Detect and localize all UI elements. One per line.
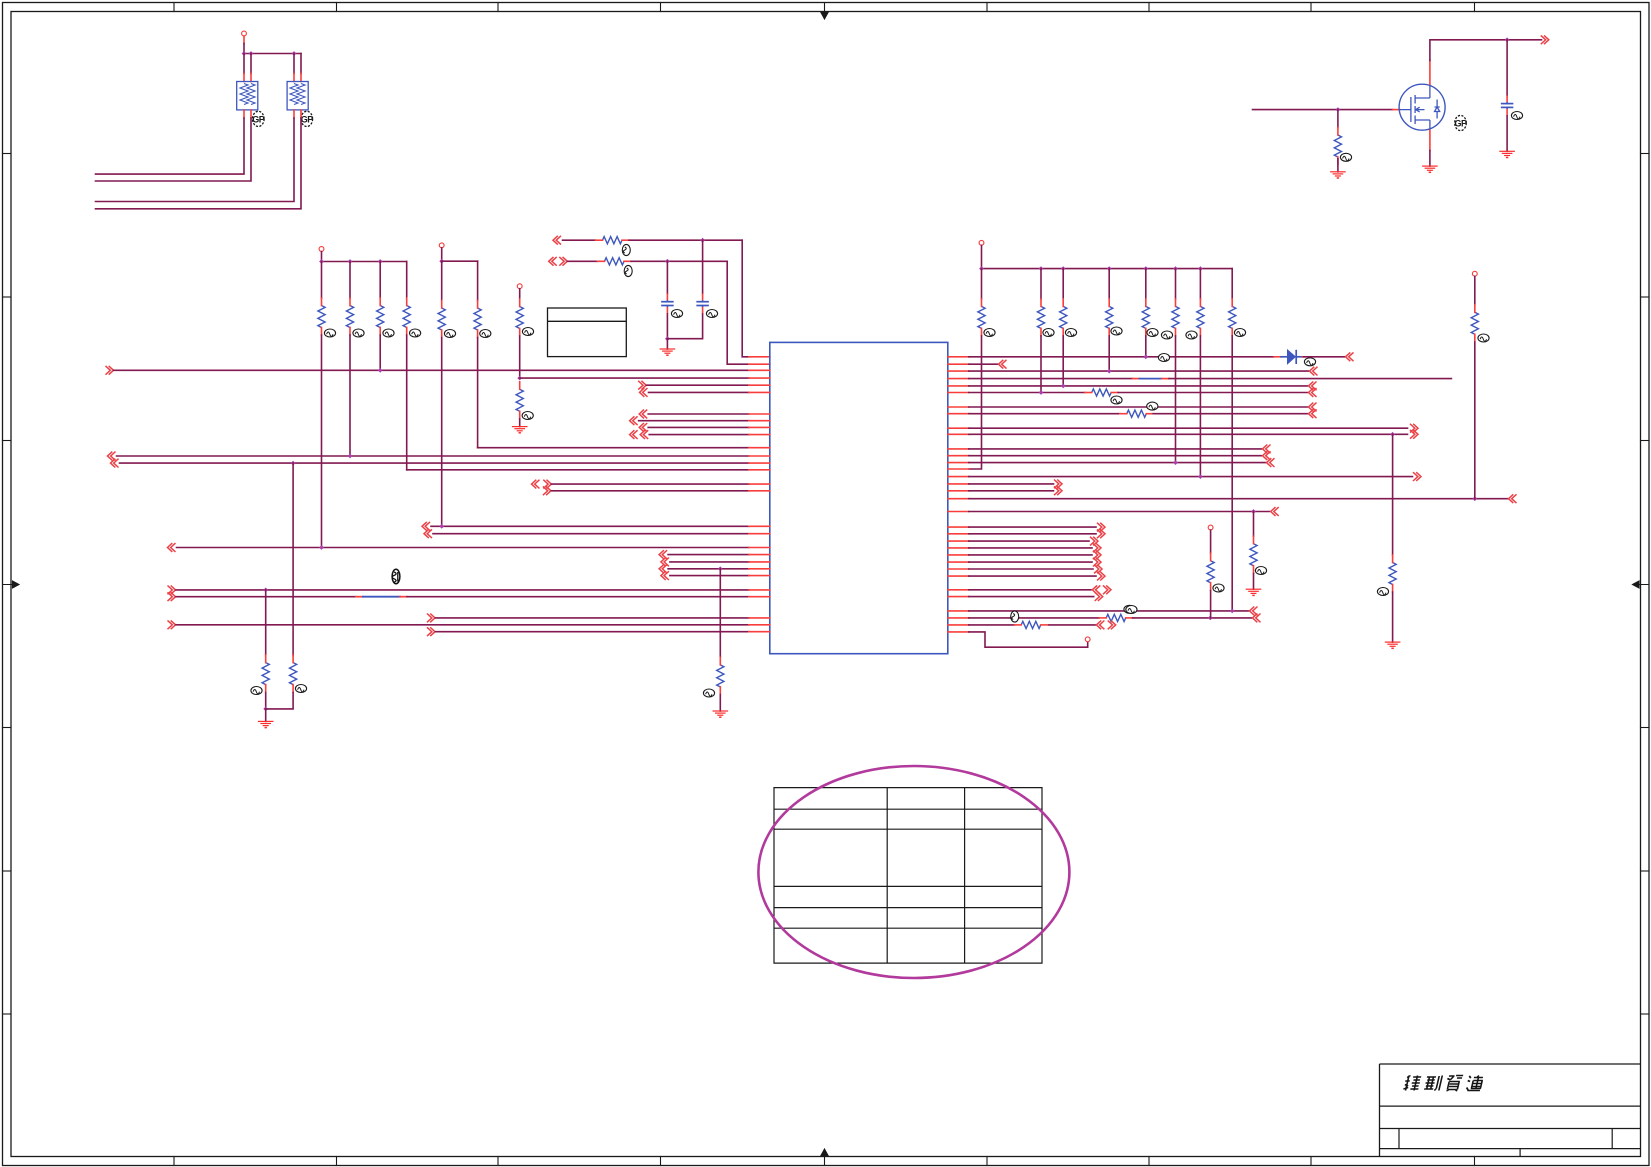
wire net IN2 to corner xyxy=(631,260,727,262)
wire R82 to ground xyxy=(1253,574,1255,590)
label R68 xyxy=(1234,329,1245,337)
label on net R1 xyxy=(1158,354,1169,362)
wire Q1 source down to ground xyxy=(1429,130,1431,150)
border zone ticks right xyxy=(1641,153,1650,155)
wire bus group1 xyxy=(322,261,407,263)
wire net R6 with resistor xyxy=(948,392,969,394)
wire bank bus xyxy=(982,268,1233,270)
wire Q1 drain up xyxy=(1429,61,1431,85)
junction bank bus x=1145.3 xyxy=(1143,266,1148,271)
wire net S6 xyxy=(948,561,969,563)
crystal box Y1 xyxy=(548,308,627,357)
label R65 xyxy=(1147,329,1158,337)
svg-text:GP: GP xyxy=(252,114,265,124)
svg-text:GP: GP xyxy=(301,114,314,124)
resistor R53 xyxy=(717,665,724,687)
company name 緯創資通 (Wistron) xyxy=(1403,1076,1484,1092)
label D1 xyxy=(1304,358,1315,366)
wire bus to RN1 pin1 xyxy=(243,54,245,74)
junction bank bus x=1040.5 xyxy=(1039,266,1044,271)
label net G cluster (vertical) xyxy=(392,569,400,583)
IC U1 xyxy=(770,342,948,653)
junction net R5 / R63 xyxy=(1061,384,1066,389)
junction ground node xyxy=(665,336,670,341)
junction top net / C3 xyxy=(1505,37,1510,42)
junction on bus at RN1 pin2 xyxy=(249,51,254,56)
label R11 xyxy=(324,329,335,337)
wire R68 down to net xyxy=(1231,336,1233,611)
resistor pack RN1 xyxy=(237,82,258,110)
wire R81 to net U2 xyxy=(1210,591,1212,618)
wire net J3 xyxy=(427,627,435,636)
resistor R65 xyxy=(1142,306,1149,328)
label R71 xyxy=(1111,396,1122,404)
wire net E2 xyxy=(424,529,432,538)
wire H1 junction down to R51 xyxy=(265,590,267,656)
wire bus to resistor R14 xyxy=(406,262,408,299)
wire net B4 xyxy=(630,430,638,439)
wire net B2 xyxy=(630,416,638,425)
label R12 xyxy=(353,329,364,337)
wire R63 down to net xyxy=(1062,336,1064,386)
svg-text:GP: GP xyxy=(1454,118,1467,128)
port P3 group2 xyxy=(439,243,444,248)
label GP for RN1 xyxy=(252,111,264,126)
wire net R16 xyxy=(948,490,969,492)
resistor R32 xyxy=(516,389,523,411)
junction net R17 / riser xyxy=(1472,496,1477,501)
label GP for Q1 xyxy=(1455,115,1467,130)
wire net E1 xyxy=(422,522,430,531)
label R64 xyxy=(1111,327,1122,335)
net IN1 chevron xyxy=(553,236,561,245)
wire bus to resistor R11 xyxy=(321,262,323,299)
junction net R3 / R64 xyxy=(1107,369,1112,374)
resistor pack RN2 xyxy=(287,82,308,110)
ground chain xyxy=(512,426,528,428)
wire top net to chevron xyxy=(1507,39,1541,41)
title block frame xyxy=(1380,1064,1641,1149)
wire net G2 xyxy=(661,558,669,567)
label R67 xyxy=(1186,331,1197,339)
junction net R10 / R73 xyxy=(1390,432,1395,437)
resistor R74 inline xyxy=(1106,614,1126,621)
resistor R73 xyxy=(1389,563,1396,585)
wire R22 corner into IC xyxy=(477,338,479,448)
label C3 xyxy=(1511,112,1522,120)
wire net IN2 left segment xyxy=(568,260,598,262)
wire bus to RN2 pin1 xyxy=(293,54,295,74)
wire R64 down to net xyxy=(1108,336,1110,371)
wire net U3 with resistor xyxy=(948,624,969,626)
wire net R1 (diode net) xyxy=(948,356,969,358)
label R82 xyxy=(1255,567,1266,575)
net IN2 chevron xyxy=(549,257,557,266)
label R14 xyxy=(410,329,421,337)
wire net F1 long xyxy=(168,543,176,552)
ferrite bead FB2 xyxy=(1133,378,1140,380)
capacitor C2 xyxy=(696,301,709,303)
wire RN2 pin4 down-left xyxy=(300,110,302,118)
wire gate junction down xyxy=(1337,110,1339,128)
wire net T2 bidir xyxy=(948,596,969,598)
label R62 xyxy=(1043,329,1054,337)
wire net S4 xyxy=(948,547,969,549)
wire net R3 xyxy=(948,370,969,372)
label R61 xyxy=(984,329,995,337)
label GP for RN2 xyxy=(301,111,313,126)
resistor R63 xyxy=(1060,306,1067,328)
wire net U1 long xyxy=(948,610,969,612)
wire G3 junction down to R53 xyxy=(719,569,721,658)
junction bus group1 x=349.5 xyxy=(348,259,353,264)
ground C1 xyxy=(666,339,668,349)
wire net C2L xyxy=(111,459,119,468)
wire C2 stem xyxy=(702,240,704,293)
resistor R13 xyxy=(377,306,384,328)
wire net R7 xyxy=(948,406,969,408)
label R73 xyxy=(1377,588,1388,596)
wire bus to resistor R13 xyxy=(379,262,381,299)
resistor R62 xyxy=(1037,306,1044,328)
wire bus to resistor R61 xyxy=(981,269,983,299)
wire net R4 with bead xyxy=(948,378,969,380)
wire bus to resistor R67 xyxy=(1199,269,1201,299)
resistor R64 xyxy=(1106,306,1113,328)
resistor R41 inline xyxy=(603,237,623,244)
wire R11 to net SDA xyxy=(321,335,323,548)
junction net R1 / R65 xyxy=(1143,354,1148,359)
wire net S5 xyxy=(948,554,969,556)
junction net C2L vertical xyxy=(291,461,296,466)
junction C2 tap xyxy=(700,238,705,243)
capacitor C3 xyxy=(1501,103,1514,105)
wire R22 into IC xyxy=(478,447,749,449)
wire gate net xyxy=(1253,109,1393,111)
wire net R12g xyxy=(948,455,969,457)
label net U2 (vertical) xyxy=(1011,611,1019,622)
wire net S7 xyxy=(948,568,969,570)
wire net A6 xyxy=(640,388,648,397)
wire net H1 long xyxy=(168,586,176,595)
resistor R81 xyxy=(1207,561,1214,583)
wire net B3 xyxy=(639,423,647,432)
junction C1 tap xyxy=(665,259,670,264)
junction net A3 / R13 xyxy=(378,368,383,373)
wire net G1 xyxy=(659,550,667,559)
wire corner down into IC pin2 xyxy=(727,261,749,364)
wire net D1 xyxy=(532,480,540,489)
label R41 (vertical) xyxy=(622,244,630,255)
border center arrow right xyxy=(1633,581,1650,588)
label R66 xyxy=(1161,331,1172,339)
wire net A5 xyxy=(638,381,646,390)
wire net IN1 to corner xyxy=(629,239,742,241)
label R42 (vertical) xyxy=(624,265,632,276)
wire D1 to chevron xyxy=(1304,356,1345,358)
junction net R13g / R66 xyxy=(1173,460,1178,465)
border zone ticks top xyxy=(173,3,175,12)
junction bank bus x=1108.7 xyxy=(1107,266,1112,271)
ferrite bead FB1 xyxy=(356,596,363,598)
wire C3 to ground xyxy=(1506,116,1508,151)
wire R14 into IC xyxy=(407,469,749,471)
diode D1 xyxy=(1274,356,1281,358)
wire R21 down to net xyxy=(441,338,443,527)
label R32 xyxy=(522,412,533,420)
port P7 chain x=1210 xyxy=(1208,525,1213,530)
wire net R8 with resistor xyxy=(948,413,969,415)
junction on bus at RN1 pin1 xyxy=(242,51,247,56)
wire bus to resistor R63 xyxy=(1062,269,1064,299)
wire net R14g xyxy=(948,476,969,478)
resistor R11 xyxy=(318,306,325,328)
wire net G3 xyxy=(659,564,667,573)
border zone ticks left xyxy=(3,153,12,155)
title block row4 divider xyxy=(1519,1149,1521,1157)
junction net R6 / R62 xyxy=(1039,390,1044,395)
wire net B1 xyxy=(639,410,647,419)
wire net D2 xyxy=(543,486,551,495)
label R51 xyxy=(251,687,262,695)
resistor R31 xyxy=(516,307,523,329)
wire bus to resistor R68 xyxy=(1231,269,1233,299)
wire bus corner to RN2 pin2 xyxy=(300,54,302,74)
wire net U4 to port xyxy=(948,631,969,633)
junction net U1 / R68 xyxy=(1230,609,1235,614)
label R31 xyxy=(522,328,533,336)
label C1 xyxy=(671,310,682,318)
wire C1 bottom to ground junction xyxy=(666,314,668,339)
junction bank bus x=1199.9 xyxy=(1198,266,1203,271)
label R22 xyxy=(480,330,491,338)
border center arrow bottom xyxy=(821,1149,828,1166)
wire net S8 xyxy=(948,575,969,577)
wire bus to resistor R62 xyxy=(1040,269,1042,299)
resistor R66 xyxy=(1172,306,1179,328)
wire net C1L xyxy=(108,452,116,461)
resistor R21 xyxy=(438,308,445,330)
wire R73 to ground xyxy=(1392,592,1394,642)
resistor R83 riser xyxy=(1471,312,1478,334)
wire net T1 bidir xyxy=(948,589,969,591)
wire port P1 to bus xyxy=(243,44,245,54)
title block row3 dividers xyxy=(1399,1129,1612,1149)
ground R91 xyxy=(1330,171,1346,173)
junction net F1 / R11 xyxy=(319,545,324,550)
wire net R10 xyxy=(948,433,969,435)
junction net E1 / R21 xyxy=(439,524,444,529)
resistor R72 inline xyxy=(1127,410,1147,417)
wire R53 to ground xyxy=(719,695,721,712)
wire R67 down to net xyxy=(1199,336,1201,477)
junction bus group1 x=321 xyxy=(319,259,324,264)
wire RN1 pin4 down-left xyxy=(250,110,252,118)
wire net R18 xyxy=(948,511,969,513)
wire R61 down corner into IC (right pin) xyxy=(969,336,982,469)
resistor R52 xyxy=(290,663,297,685)
wire net R10 junction down to R73 xyxy=(1392,434,1394,555)
resistor R73i inline xyxy=(1021,621,1040,628)
junction chain xyxy=(517,376,522,381)
resistor R91 xyxy=(1334,135,1341,157)
port P2 group1 xyxy=(319,247,324,252)
label C2 xyxy=(706,310,717,318)
resistor R71 inline xyxy=(1092,389,1112,396)
resistor R14 xyxy=(403,306,410,328)
wire R51 to ground junction xyxy=(265,693,267,709)
wire net S2 xyxy=(948,533,969,535)
label R81 xyxy=(1213,584,1224,592)
label R52 xyxy=(295,685,306,693)
junction net R18 / R82 xyxy=(1251,509,1256,514)
wire C2 bottom to ground node xyxy=(667,314,702,339)
wire net S3 xyxy=(948,540,969,542)
resistor R42 inline xyxy=(605,258,625,265)
wire R52 bottom corner to ground junction xyxy=(266,693,293,709)
wire net S1 xyxy=(948,526,969,528)
highlight ellipse xyxy=(758,766,1069,978)
port P6 bottom xyxy=(1085,637,1090,642)
wire C2L vertical down to R52 xyxy=(292,463,294,655)
junction bank bus x=1062.7 xyxy=(1061,266,1066,271)
label on net U1 xyxy=(1124,605,1135,613)
junction bank bus x=981 xyxy=(979,266,984,271)
wire net IN1 left segment xyxy=(563,239,596,241)
junction gate / R91 xyxy=(1336,107,1341,112)
ground R53 xyxy=(713,710,729,712)
wire net R18 junction down to R82 xyxy=(1253,512,1255,537)
label R63 xyxy=(1065,329,1076,337)
label R53 xyxy=(703,689,714,697)
resistor R82 xyxy=(1250,544,1257,566)
junction on bus at RN2 pin1 xyxy=(292,51,297,56)
junction net H1 pulldown xyxy=(263,588,268,593)
resistor R51 xyxy=(262,663,269,685)
wire bus to resistor R64 xyxy=(1108,269,1110,299)
wire net R15 xyxy=(948,483,969,485)
resistor R61 xyxy=(978,306,985,328)
wire bus to resistor R12 xyxy=(349,262,351,299)
wire bus to resistor R66 xyxy=(1175,269,1177,299)
wire R14 corner into IC xyxy=(406,335,408,470)
wire net R13g xyxy=(948,462,969,464)
wire R83 down to net R17 xyxy=(1474,342,1476,499)
label R74 xyxy=(1126,606,1137,614)
resistor R12 xyxy=(346,306,353,328)
transistor Q1 (P-MOSFET) xyxy=(1399,84,1445,130)
label R91 xyxy=(1340,153,1351,161)
wire net J1 xyxy=(427,614,435,623)
wire bus to resistor R22 xyxy=(477,261,479,300)
resistor R68 xyxy=(1229,306,1236,328)
port P5 bank xyxy=(979,240,984,245)
border zone ticks bottom xyxy=(173,1157,175,1166)
wire bus to resistor R21 xyxy=(441,261,443,300)
wire net H2 long with bead xyxy=(168,592,176,601)
wire RN2 pin3 down-left xyxy=(293,110,295,118)
resistor R67 xyxy=(1197,306,1204,328)
wire bus group2 xyxy=(442,260,478,262)
wire corner down into IC pin1 xyxy=(742,240,749,357)
port P8 riser xyxy=(1472,271,1477,276)
wire R65 down to net xyxy=(1145,336,1147,357)
border center arrow left xyxy=(3,581,20,588)
wire RN1 pin3 down-left xyxy=(243,110,245,118)
border center arrow top xyxy=(821,3,828,20)
junction net C1L / R12 xyxy=(348,454,353,459)
port P1 top-left xyxy=(242,31,247,36)
wire bus to resistor R65 xyxy=(1145,269,1147,299)
label R13 xyxy=(383,329,394,337)
wire R32 to ground xyxy=(519,419,521,427)
revision table xyxy=(774,788,1042,964)
wire bus top-left xyxy=(244,53,301,55)
wire net R9 xyxy=(948,427,969,429)
port P4 chain xyxy=(517,284,522,289)
wire R31 to junction xyxy=(519,336,521,378)
resistor R22 xyxy=(474,308,481,330)
ground R82 xyxy=(1246,588,1262,590)
ground R73 xyxy=(1385,641,1401,643)
ground Q1 source xyxy=(1422,165,1438,167)
ground C3 xyxy=(1499,150,1515,152)
wire R13 to net xyxy=(379,335,381,370)
capacitor C1 xyxy=(661,301,674,303)
wire R62 down to net xyxy=(1040,336,1042,393)
wire R12 to net xyxy=(349,335,351,456)
wire net G4 xyxy=(661,571,669,580)
junction net G3 pulldown xyxy=(718,566,723,571)
wire C3 stem xyxy=(1506,40,1508,96)
wire net R2 short xyxy=(948,363,969,365)
wire net J2 long xyxy=(168,620,176,629)
junction net R14g / R67 xyxy=(1198,474,1203,479)
wire net R17 long xyxy=(948,498,969,500)
junction bank bus x=1175 xyxy=(1173,266,1178,271)
wire R91 to ground xyxy=(1337,159,1339,172)
junction bus group2 xyxy=(439,259,444,264)
label R72 xyxy=(1147,402,1158,410)
wire R66 down to net xyxy=(1175,336,1177,463)
wire bus to RN1 pin2 xyxy=(250,54,252,74)
wire net U2 with resistor xyxy=(948,617,969,619)
wire chain junction to IC pin xyxy=(520,377,749,379)
junction bus group1 x=379.7 xyxy=(378,259,383,264)
ground cluster xyxy=(265,709,267,722)
label R83 xyxy=(1478,334,1489,342)
wire net A3 long bus xyxy=(106,366,114,375)
junction net U2 / R81 xyxy=(1208,616,1213,621)
junction ground cluster xyxy=(263,707,268,712)
wire net R11g xyxy=(948,448,969,450)
wire net R5 xyxy=(948,385,969,387)
label R21 xyxy=(444,330,455,338)
wire C1 stem xyxy=(666,261,668,293)
